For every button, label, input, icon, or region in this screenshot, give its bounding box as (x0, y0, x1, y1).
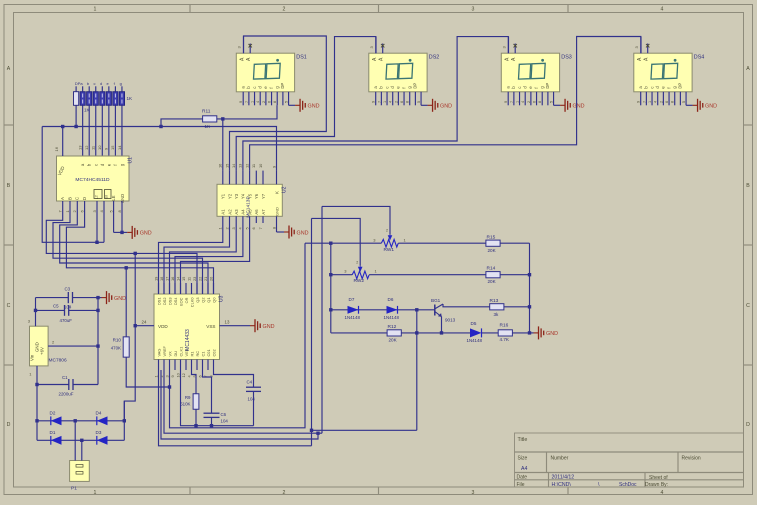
resistor R9 510K (193, 394, 199, 410)
svg-text:2: 2 (356, 261, 358, 265)
svg-text:7: 7 (642, 101, 646, 103)
wire U1 LE/GND to ground (113, 201, 115, 232)
svg-text:5: 5 (285, 101, 289, 103)
wire diode/base line (331, 309, 435, 311)
diode D7 1N4148 (348, 306, 359, 314)
svg-text:Title: Title (518, 437, 528, 443)
svg-text:4: 4 (661, 7, 664, 13)
wire VDD to LT/BI (42, 127, 104, 243)
svg-text:C01: C01 (206, 349, 211, 356)
svg-text:15: 15 (224, 164, 229, 168)
svg-text:DP: DP (545, 83, 550, 89)
svg-text:A6: A6 (254, 209, 259, 215)
wire DS1 digit-select loop (230, 36, 327, 171)
svg-text:C3: C3 (65, 287, 71, 292)
svg-text:6: 6 (533, 101, 537, 103)
diode D6 1N4148 (387, 306, 398, 314)
svg-text:5: 5 (417, 101, 421, 103)
U2 pin stubs and numbers (222, 171, 224, 185)
svg-text:SchDoc: SchDoc (619, 482, 637, 488)
svg-text:7: 7 (510, 101, 514, 103)
wire divider line 2 (331, 274, 530, 276)
svg-text:19: 19 (153, 277, 158, 281)
wire R10 top to BCD line (125, 268, 127, 337)
wire bridge row 2 (37, 439, 124, 441)
svg-text:DP: DP (413, 83, 418, 89)
svg-text:DP: DP (678, 83, 683, 89)
wire VDD rail (42, 127, 276, 171)
svg-text:VREF: VREF (162, 346, 167, 357)
svg-text:1: 1 (94, 7, 97, 13)
svg-text:D5: D5 (471, 321, 477, 326)
svg-text:B: B (67, 197, 72, 200)
wire DS2 digit-select loop (236, 37, 376, 171)
wire R9 to U3 RC pin (192, 370, 197, 394)
svg-text:13: 13 (225, 320, 230, 325)
svg-text:VSS: VSS (206, 324, 215, 329)
svg-text:U1: U1 (128, 157, 134, 164)
svg-text:6: 6 (665, 101, 669, 103)
svg-text:g: g (120, 81, 122, 86)
wire U1 input B to U3 Q1 (53, 201, 203, 294)
svg-text:A1: A1 (221, 209, 226, 215)
svg-text:H:\CND\: H:\CND\ (552, 482, 572, 488)
svg-text:20K: 20K (488, 279, 497, 284)
svg-text:R9: R9 (185, 395, 191, 400)
svg-text:9013: 9013 (445, 318, 456, 323)
svg-text:9: 9 (504, 101, 508, 103)
svg-text:1: 1 (648, 101, 652, 103)
svg-text:470uF: 470uF (60, 318, 73, 323)
svg-text:K: K (274, 191, 279, 194)
7-segment display DS2 (369, 37, 427, 106)
svg-text:GND: GND (573, 104, 585, 110)
wire U3 VAG bus E (159, 370, 312, 446)
svg-text:12: 12 (181, 373, 186, 377)
analog-digital converter U3 MC14433 (154, 294, 220, 360)
transistor BG1 9013 (434, 305, 436, 316)
wire to ground (power) (98, 297, 102, 299)
resistor R15 20K (486, 240, 500, 246)
resistor R11 1K (203, 116, 217, 122)
wire RW2 wiper feed (312, 218, 361, 265)
svg-text:BG1: BG1 (431, 298, 441, 303)
svg-text:Y2: Y2 (227, 193, 232, 199)
wire wiper2 to R12 line (bus B) (312, 429, 417, 431)
wire divider line 1 (305, 242, 530, 244)
svg-text:D: D (82, 197, 87, 200)
wire U2 inputs to U3 digit outputs staircase (159, 223, 223, 294)
svg-text:R10: R10 (113, 338, 122, 343)
svg-text:U2: U2 (282, 186, 288, 193)
transistor-array U2 MC1413P (217, 184, 282, 217)
svg-text:9: 9 (372, 101, 376, 103)
svg-text:BI: BI (105, 195, 109, 199)
svg-text:Y1: Y1 (221, 193, 226, 199)
svg-text:21: 21 (203, 277, 208, 281)
svg-text:6: 6 (251, 227, 256, 229)
svg-text:Y4: Y4 (241, 193, 246, 199)
wire C4 top to U3 C02 pin (214, 370, 254, 387)
svg-text:2: 2 (283, 7, 286, 13)
svg-text:15: 15 (110, 145, 115, 150)
svg-text:C4: C4 (247, 380, 253, 385)
svg-text:1: 1 (94, 490, 97, 496)
wire U1 input A to U3 Q0 (46, 201, 197, 294)
7-segment display DS4 (634, 37, 692, 106)
svg-text:DP: DP (280, 83, 285, 89)
wire regulator input pin 1 to bridge (36, 366, 38, 440)
svg-text:2: 2 (386, 229, 388, 233)
svg-text:4: 4 (521, 101, 525, 103)
svg-text:c: c (517, 87, 522, 89)
svg-text:D1: D1 (50, 430, 56, 435)
wire U3 VSS pin to ground (220, 325, 251, 327)
svg-text:16: 16 (54, 146, 59, 151)
svg-text:d: d (100, 81, 102, 86)
svg-text:c: c (252, 87, 257, 89)
svg-text:c: c (649, 87, 654, 89)
svg-text:7: 7 (245, 101, 249, 103)
wire line 4 (R12/D5/R16) (331, 332, 530, 334)
wire R12 line to bus A riser (416, 310, 418, 431)
svg-text:MC7806: MC7806 (49, 358, 67, 364)
svg-text:c: c (94, 81, 96, 86)
svg-text:DS1: DS1 (156, 298, 161, 306)
svg-text:Q0: Q0 (211, 297, 216, 303)
svg-text:3: 3 (164, 375, 169, 377)
svg-text:RW1: RW1 (384, 247, 395, 253)
svg-text:DS4: DS4 (694, 55, 705, 61)
svg-text:A: A (60, 197, 65, 200)
svg-text:GND: GND (546, 331, 558, 337)
diode D3 (97, 436, 108, 445)
wire P1 pin 1 (74, 421, 76, 461)
ground (power filter) (102, 297, 107, 299)
svg-text:4.7K: 4.7K (500, 337, 510, 342)
capacitor C4 104 (246, 386, 261, 388)
svg-text:9: 9 (271, 166, 276, 168)
svg-text:RW2: RW2 (354, 278, 365, 284)
svg-text:A4: A4 (241, 209, 246, 215)
svg-text:13: 13 (238, 164, 243, 168)
svg-text:10: 10 (97, 145, 102, 150)
capacitor C1 2200uF (37, 384, 69, 386)
svg-text:1K: 1K (84, 108, 91, 113)
svg-text:DS2: DS2 (429, 55, 440, 61)
potentiometer RW1 (381, 239, 398, 247)
wire U1 input C to U3 Q2 (60, 201, 208, 294)
wire R9 bottom (195, 409, 197, 425)
svg-text:7: 7 (377, 101, 381, 103)
svg-text:4: 4 (661, 490, 664, 496)
svg-text:A7: A7 (261, 209, 266, 215)
svg-text:470K: 470K (111, 346, 121, 351)
svg-text:GND: GND (308, 104, 320, 110)
wire DS2 cathode to ground (421, 104, 428, 106)
svg-text:Number: Number (551, 456, 569, 462)
svg-text:1N4148: 1N4148 (384, 315, 400, 320)
wire regulator GND pin 2 (48, 345, 98, 347)
wire U1 input D to U3 Q3 (66, 201, 213, 294)
svg-text:A2: A2 (227, 209, 232, 215)
wire DS3 cathode to ground (554, 104, 561, 106)
wire U2 GND pin to ground (277, 231, 285, 233)
svg-text:1: 1 (218, 227, 223, 229)
svg-text:DS1: DS1 (296, 55, 307, 61)
svg-text:3: 3 (472, 7, 475, 13)
svg-text:Q3: Q3 (195, 298, 200, 303)
svg-text:D6: D6 (388, 297, 394, 302)
svg-text:LT: LT (95, 194, 99, 199)
svg-text:7: 7 (258, 227, 263, 229)
svg-text:D2: D2 (50, 410, 56, 415)
svg-text:4: 4 (256, 101, 260, 103)
svg-text:6: 6 (400, 101, 404, 103)
svg-text:GND: GND (140, 231, 152, 237)
svg-text:GND: GND (440, 104, 452, 110)
svg-text:CLK0: CLK0 (189, 297, 194, 308)
svg-text:6: 6 (197, 375, 202, 377)
svg-text:Sheet of: Sheet of (649, 475, 668, 481)
svg-text:Y3: Y3 (234, 193, 239, 199)
svg-text:MC1413P: MC1413P (246, 196, 252, 217)
svg-text:2200uF: 2200uF (59, 392, 74, 397)
svg-text:CLK1: CLK1 (178, 347, 183, 357)
svg-text:OR: OR (184, 297, 189, 303)
resistor R14 20K (486, 272, 500, 278)
wire riser wiper2 to buses (311, 218, 313, 445)
resistor R12 20K (387, 330, 401, 336)
svg-text:1N4148: 1N4148 (467, 338, 483, 343)
wire R11 right to DS1 DP and U2 pin1 (217, 105, 277, 119)
svg-text:A4: A4 (521, 466, 527, 472)
svg-text:2: 2 (659, 101, 663, 103)
svg-text:3: 3 (231, 227, 236, 229)
svg-text:+6V: +6V (40, 347, 45, 355)
svg-text:9: 9 (637, 101, 641, 103)
svg-text:2: 2 (527, 101, 531, 103)
wire U3 VREF bus D (161, 370, 318, 439)
svg-text:5: 5 (550, 101, 554, 103)
svg-text:11: 11 (251, 164, 256, 168)
wire U3 VX to divider line 1 (bus A) (170, 243, 306, 427)
svg-text:VX: VX (167, 351, 172, 357)
svg-text:8: 8 (271, 227, 276, 229)
svg-text:Q1: Q1 (206, 298, 211, 303)
svg-text:D4: D4 (96, 410, 102, 415)
svg-text:3k: 3k (494, 312, 500, 317)
svg-text:GND: GND (114, 296, 126, 302)
diode D5 1N4148 (470, 328, 482, 337)
svg-text:D: D (7, 422, 11, 428)
svg-text:5: 5 (682, 101, 686, 103)
capacitor C5 470uF (36, 309, 65, 311)
svg-text:U3: U3 (219, 295, 225, 302)
resistor R13 5k (490, 304, 504, 310)
svg-text:2: 2 (394, 101, 398, 103)
title block (515, 433, 744, 487)
svg-text:16: 16 (170, 277, 175, 281)
svg-text:Drawn By:: Drawn By: (645, 482, 668, 488)
svg-text:C6: C6 (221, 412, 227, 417)
svg-text:2011/4/12: 2011/4/12 (552, 475, 575, 481)
svg-text:R13: R13 (490, 298, 499, 304)
svg-text:LE: LE (111, 195, 116, 200)
svg-text:c: c (93, 164, 98, 166)
wire bus C to wiper1 (164, 370, 322, 433)
svg-text:File: File (517, 482, 525, 488)
wire regulator output pin 3 (35, 298, 37, 327)
svg-text:MC14433: MC14433 (185, 329, 191, 351)
ground (DS2) (428, 104, 433, 106)
svg-text:B: B (746, 183, 750, 189)
svg-text:2: 2 (224, 227, 229, 229)
svg-text:104: 104 (248, 397, 256, 402)
diode D4 (97, 416, 108, 425)
svg-text:DU: DU (173, 351, 178, 357)
svg-text:Q2: Q2 (200, 298, 205, 303)
svg-text:17: 17 (164, 277, 169, 281)
svg-text:VDD: VDD (158, 324, 168, 329)
svg-text:a: a (506, 86, 511, 89)
svg-text:B: B (7, 183, 11, 189)
svg-text:1: 1 (516, 101, 520, 103)
svg-text:C1: C1 (62, 375, 68, 380)
svg-text:1: 1 (153, 375, 158, 377)
wire R11 left to VDD rail (161, 119, 203, 127)
svg-text:8: 8 (671, 101, 675, 103)
svg-text:8: 8 (406, 101, 410, 103)
svg-text:A: A (7, 66, 11, 72)
svg-text:15: 15 (181, 277, 186, 281)
svg-text:DS3: DS3 (561, 55, 572, 61)
diode D2 (51, 416, 62, 425)
svg-text:8: 8 (273, 101, 277, 103)
wire DS3 digit-select loop (243, 37, 508, 171)
resistor pack R2-R9 1K segment resistors (74, 81, 134, 156)
U3 pin stubs and numbers (158, 283, 160, 294)
svg-text:9: 9 (170, 375, 175, 377)
svg-text:R15: R15 (487, 234, 496, 240)
connector P1 (70, 461, 90, 482)
svg-text:MC74HC4511D: MC74HC4511D (75, 177, 110, 183)
svg-text:C5: C5 (53, 304, 59, 309)
svg-text:4: 4 (389, 101, 393, 103)
svg-text:c: c (384, 87, 389, 89)
svg-text:P1: P1 (71, 486, 77, 492)
wire RC bottom junction line (181, 370, 254, 426)
svg-text:GND: GND (297, 230, 309, 236)
svg-text:C1: C1 (200, 352, 205, 357)
svg-text:16: 16 (218, 164, 223, 168)
svg-text:Revision: Revision (682, 456, 701, 462)
svg-text:D3: D3 (96, 430, 102, 435)
svg-text:VAG: VAG (156, 349, 161, 357)
wire U3 VDD pin (135, 325, 154, 327)
svg-text:R16: R16 (500, 323, 509, 329)
svg-text:12: 12 (244, 164, 249, 168)
svg-text:EOC: EOC (178, 297, 183, 306)
op-amp U1 MC74HC4511D BCD to 7-seg decoder (57, 156, 130, 203)
wire to ground (analog) (530, 332, 534, 334)
7-segment display DS3 (501, 37, 559, 106)
7-segment display DS1 (236, 36, 294, 105)
svg-text:C: C (7, 303, 11, 309)
ground (DS4) (693, 104, 698, 106)
svg-text:13: 13 (77, 145, 82, 150)
wire DS1 cathode to ground (289, 104, 296, 106)
svg-text:R1: R1 (189, 352, 194, 357)
wire right rail (529, 243, 531, 333)
svg-text:R14: R14 (487, 266, 496, 272)
svg-text:18: 18 (159, 277, 164, 281)
svg-text:Y6: Y6 (254, 193, 259, 199)
svg-text:11: 11 (186, 277, 191, 281)
svg-text:C02: C02 (211, 349, 216, 356)
diode D1 (51, 436, 62, 445)
ground (analog) (534, 332, 539, 334)
svg-text:2: 2 (283, 490, 286, 496)
svg-text:D: D (746, 422, 750, 428)
potentiometer RW2 (352, 271, 369, 279)
svg-text:20K: 20K (488, 248, 497, 253)
svg-text:GND: GND (274, 207, 279, 216)
svg-text:5: 5 (244, 227, 249, 229)
svg-text:DS2: DS2 (162, 298, 167, 306)
svg-text:3: 3 (472, 490, 475, 496)
wire P1 pin 2 (81, 440, 83, 460)
resistor R10 470K (123, 337, 129, 357)
svg-text:2: 2 (262, 101, 266, 103)
svg-text:DS3: DS3 (167, 298, 172, 306)
svg-text:1N4148: 1N4148 (345, 315, 361, 320)
wire riser wiper1 to bus C (321, 206, 323, 433)
wire bridge row 1 (37, 420, 124, 422)
svg-text:9: 9 (239, 101, 243, 103)
svg-text:Size: Size (518, 456, 528, 462)
svg-text:1: 1 (383, 101, 387, 103)
wire VDD rail to U3 and rectifier (124, 253, 135, 420)
ground (DS3) (560, 104, 565, 106)
svg-text:24: 24 (142, 320, 147, 325)
capacitor C3 104 (36, 297, 69, 299)
svg-text:1: 1 (251, 101, 255, 103)
svg-text:510K: 510K (180, 402, 190, 407)
svg-text:Vin: Vin (30, 354, 35, 361)
svg-text:C: C (746, 303, 750, 309)
svg-text:R12: R12 (388, 324, 397, 330)
svg-text:D7: D7 (349, 297, 355, 302)
svg-text:1K: 1K (205, 124, 212, 129)
wire bridge right column (123, 401, 125, 440)
wire R10 bottom to VX (126, 357, 169, 387)
svg-text:A: A (746, 66, 750, 72)
svg-text:GND: GND (263, 324, 275, 330)
svg-text:14: 14 (117, 145, 122, 150)
svg-text:4: 4 (654, 101, 658, 103)
svg-text:1K: 1K (127, 96, 134, 101)
svg-text:20K: 20K (389, 338, 398, 343)
ground (U2) (284, 231, 289, 233)
wire collector line to R13 (443, 304, 530, 307)
svg-text:R11: R11 (202, 109, 211, 115)
svg-text:22: 22 (197, 277, 202, 281)
svg-text:104: 104 (221, 419, 229, 424)
svg-text:12: 12 (84, 145, 89, 150)
wire emitter to line 4 (441, 317, 443, 333)
wire right power rail (97, 298, 99, 385)
